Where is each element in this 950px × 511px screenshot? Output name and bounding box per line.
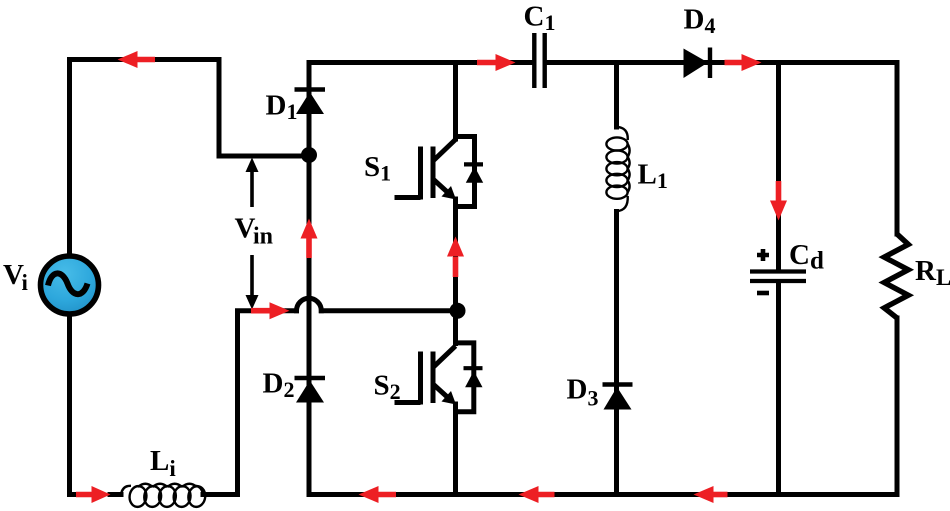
source Vi	[41, 256, 99, 314]
wire: S2 emitter to bottom rail	[453, 404, 458, 495]
diode of S1	[464, 164, 483, 182]
wire: S1 emitter down to junction	[453, 199, 458, 311]
node B: junction dot S1 emitter / S2 collector / middle wire	[450, 303, 466, 319]
minus sign of Cd	[757, 291, 769, 296]
wire: Cd column top	[776, 63, 781, 270]
wire: after Li coil up to middle wire	[203, 313, 238, 495]
wire: middle wire left of hop	[238, 308, 297, 313]
diode D4	[684, 48, 711, 79]
diode D2	[295, 378, 326, 403]
resistor RL	[884, 234, 908, 318]
plus sign of Cd	[757, 249, 769, 261]
wire: S1 collector	[453, 63, 458, 140]
Vin arrow down	[246, 255, 259, 310]
transistor S1 (IGBT with antiparallel diode)	[395, 137, 475, 207]
current arrow: before C1 pointing right	[477, 54, 516, 71]
transistor S1 emitter arrowhead	[442, 186, 457, 200]
current arrow: S column pointing up	[447, 237, 464, 278]
current arrow: middle wire pointing right	[251, 302, 290, 319]
wire: bottom rail	[309, 492, 897, 497]
inductor L1	[606, 127, 629, 211]
current arrow: bottom rail left #2	[519, 486, 555, 503]
current arrow: after D4 pointing right	[725, 54, 762, 71]
Vin arrow up	[246, 158, 259, 208]
diode D1	[295, 90, 326, 115]
wire: middle wire right of hop to S-column junction	[321, 308, 455, 313]
current arrow: D1 column pointing up	[301, 219, 318, 259]
wire: source top loop	[70, 60, 303, 255]
transistor S2 emitter arrowhead	[442, 391, 457, 405]
wire: RL column bottom	[895, 318, 900, 495]
wire: top rail (C1 right plate to RL corner)	[547, 63, 898, 235]
diode D3	[603, 385, 633, 410]
current arrow: bottom rail left #3	[694, 486, 728, 503]
wire hop over D1-D2 column	[297, 298, 322, 310]
wire: source bottom to Li	[70, 316, 77, 495]
wire: Cd column bottom	[776, 283, 781, 495]
capacitor Cd	[750, 272, 806, 282]
wire: top rail (D1 corner to C1 left plate)	[309, 60, 532, 65]
wire	[110, 492, 121, 497]
transistor S2 (IGBT with antiparallel diode)	[395, 343, 474, 412]
wire: D1/D2 column	[307, 63, 312, 495]
wire: S2 collector from junction	[453, 311, 458, 344]
current arrow: before Li pointing right	[76, 486, 111, 503]
current arrow: Cd column pointing down	[770, 181, 787, 221]
wire: L1/D3 column below coil to bottom rail	[614, 212, 619, 495]
node A: junction dot D1 anode / input	[301, 147, 317, 163]
wire: L1/D3 column top	[614, 63, 619, 128]
inductor Li	[121, 484, 206, 508]
current arrow: bottom rail left #1	[359, 486, 397, 503]
current arrow: top-left pointing left	[118, 51, 156, 68]
capacitor C1	[534, 33, 544, 88]
diode of S2	[464, 368, 483, 387]
